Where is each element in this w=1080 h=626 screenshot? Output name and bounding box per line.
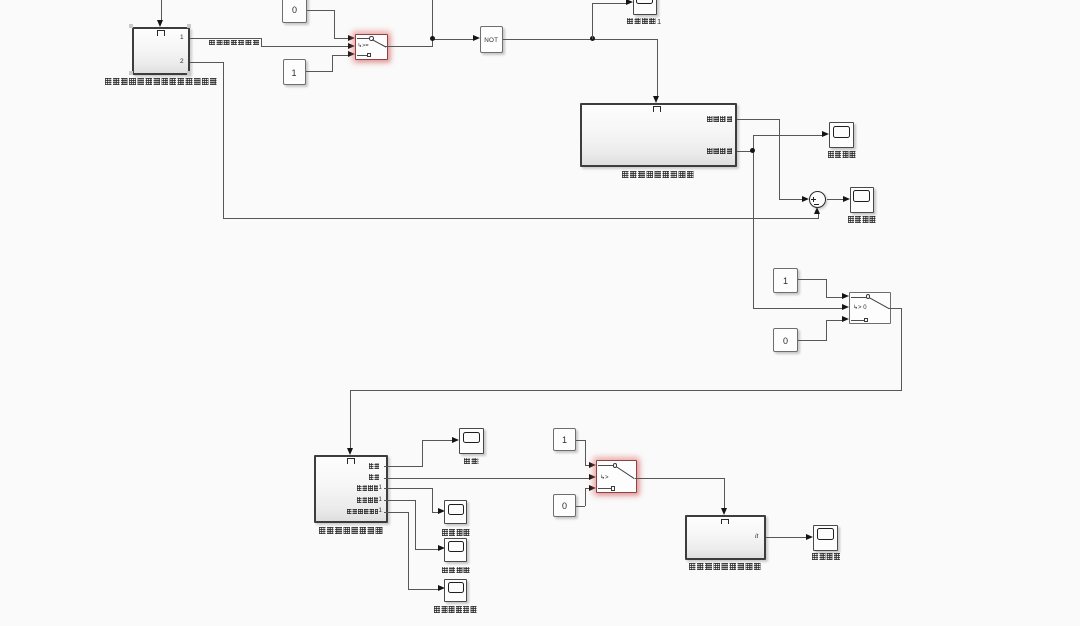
constant 0 (bottom) — [553, 494, 576, 517]
label 速度 — [464, 458, 479, 465]
constant 0 (right) — [773, 328, 798, 352]
scope 轨道电流 — [444, 500, 467, 524]
port label 峰值电流 — [707, 148, 733, 154]
subsystem 轨道炮向电容器馈电 — [685, 515, 766, 560]
wire: 放电时间 to sum plus input — [737, 119, 779, 120]
scope 轨道烧蚀质量 — [444, 579, 467, 603]
wire: const1 to switch3 input1 — [576, 440, 585, 441]
wire: 弹丸质量1 to scope — [384, 500, 416, 501]
wire: sum out to scope 放电时间 — [827, 199, 844, 200]
junction — [430, 36, 435, 41]
scope 放电时间 — [850, 187, 874, 213]
port 2 label — [180, 58, 184, 65]
switch1 (highlighted red) — [355, 34, 388, 60]
port label 轨道烧蚀质量1 — [347, 509, 378, 515]
label 弹丸质量 — [442, 567, 470, 574]
wire: const0 to switch2 input3 — [798, 340, 826, 341]
switch2 — [849, 292, 891, 324]
junction — [750, 148, 755, 153]
scope 馈电电流 — [813, 525, 838, 551]
label 轨道烧蚀质量 — [434, 606, 477, 613]
trigger symbol subsystem4 — [721, 519, 729, 525]
label 充电电源向发射电源充电子系统 — [105, 78, 218, 85]
port label it — [755, 533, 758, 540]
label 馈电电流 — [812, 553, 841, 560]
scope 弹丸质量 — [444, 538, 467, 562]
port label 弹丸质量1 — [357, 497, 378, 503]
port label 速度 — [369, 463, 380, 469]
trigger symbol subsystem1 — [157, 30, 165, 36]
wire: branch up to scope 峰值电流1 — [592, 3, 593, 39]
wire: 速度 to scope — [384, 466, 423, 467]
wire: 轨道电流1 to scope — [384, 488, 432, 489]
wire: 轨道烧蚀质量1 to scope — [384, 512, 408, 513]
wire: port1 to switch1 middle, signal 电容器两端电压 — [190, 38, 262, 39]
constant 1 (bottom) — [553, 428, 576, 451]
wire: const1 to switch2 input1 — [798, 279, 826, 280]
sum block — [809, 191, 826, 208]
scope 速度 — [459, 428, 484, 454]
wire: switch1 out up to top edge, branch to NOT — [385, 46, 432, 47]
wire: switch3 out to subsystem4 trigger — [635, 478, 725, 479]
wire: const0 to switch1 input1 — [307, 10, 334, 11]
wire: port2 down, long bottom run, up into sum minus input — [190, 62, 223, 63]
signal label 电容器两端电压 — [209, 40, 260, 46]
NOT block — [480, 26, 504, 53]
wire: const0 to switch3 input3 — [576, 506, 585, 507]
port 1 label — [180, 34, 184, 41]
wire: 位置 to switch3 middle — [384, 478, 590, 479]
constant 0 (top, clipped) — [282, 0, 307, 23]
port label 轨道电流1 — [357, 485, 378, 491]
trigger symbol subsystem2 — [653, 106, 661, 112]
label 电感向轨道炮放电 — [319, 527, 384, 534]
label 轨道炮向电容器馈电 — [689, 563, 762, 570]
label 峰值电流1 — [627, 18, 656, 25]
scope 峰值电流 — [829, 122, 854, 148]
subsystem 充电电源向发射电源充电子系统 — [132, 27, 190, 75]
scope 峰值电流1 (clipped top) — [633, 0, 657, 15]
wire: 峰值电流 out, branch up to scope and down to switch2 — [737, 151, 753, 152]
constant 1 (top) — [283, 59, 306, 85]
junction — [590, 36, 595, 41]
label 峰值电流 — [828, 151, 856, 158]
port label 放电时间 — [707, 116, 733, 122]
wire: switch2 out down-left to subsystem3 trigger — [889, 308, 901, 309]
subsystem 电感向轨道炮放电 — [314, 455, 388, 523]
wire: NOT out to subsystem2 trigger — [503, 39, 657, 40]
wire: subsystem4 out to scope 馈电电流 — [766, 537, 807, 538]
wire: const1 to switch1 input3 — [306, 71, 332, 72]
subsystem 发射电源向电感放电 — [580, 103, 737, 167]
port label 位置 — [369, 474, 380, 480]
wire: trigger line into subsystem1 top — [161, 0, 162, 21]
label 轨道电流 — [442, 529, 470, 536]
label 放电时间 — [848, 216, 876, 223]
switch3 (highlighted red) — [596, 460, 637, 494]
trigger symbol subsystem3 — [347, 458, 355, 464]
constant 1 (right) — [773, 268, 798, 293]
label 发射电源向电感放电 — [622, 171, 695, 178]
